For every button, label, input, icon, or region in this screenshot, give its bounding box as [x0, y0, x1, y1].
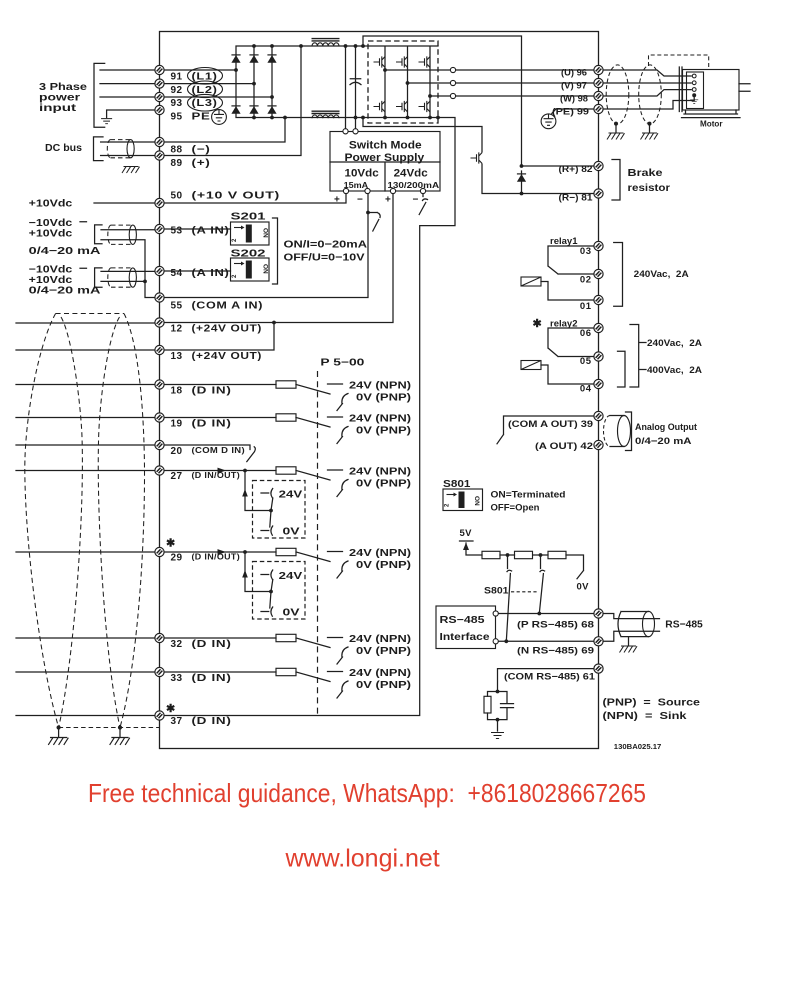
svg-text:DC bus: DC bus — [45, 143, 82, 154]
svg-text:S801: S801 — [484, 586, 509, 597]
svg-text:+10Vdc: +10Vdc — [29, 229, 73, 240]
svg-text:(P RS−485) 68: (P RS−485) 68 — [517, 620, 594, 631]
svg-text:(NPN) = Sink: (NPN) = Sink — [603, 711, 688, 722]
svg-text:(D IN): (D IN) — [192, 639, 232, 650]
svg-text:0V (PNP): 0V (PNP) — [356, 392, 411, 403]
svg-text:33: 33 — [171, 673, 183, 684]
svg-text:(D IN): (D IN) — [192, 386, 232, 397]
svg-text:resistor: resistor — [628, 183, 671, 194]
svg-text:240Vac, 2A: 240Vac, 2A — [634, 269, 689, 280]
svg-text:www.longi.net: www.longi.net — [285, 845, 440, 873]
svg-text:01: 01 — [580, 301, 592, 312]
svg-text:02: 02 — [580, 275, 592, 286]
svg-text:power: power — [39, 93, 80, 104]
svg-text:0V (PNP): 0V (PNP) — [356, 478, 411, 489]
svg-text:24Vdc: 24Vdc — [394, 168, 428, 180]
svg-text:24V (NPN): 24V (NPN) — [349, 634, 411, 645]
svg-text:P 5−00: P 5−00 — [320, 358, 365, 369]
svg-text:Interface: Interface — [440, 632, 491, 643]
svg-text:(A IN): (A IN) — [192, 226, 230, 237]
svg-text:(L2): (L2) — [192, 85, 218, 96]
svg-text:(D IN/OUT): (D IN/OUT) — [192, 553, 241, 562]
svg-text:(COM A IN): (COM A IN) — [192, 300, 264, 311]
svg-text:0V (PNP): 0V (PNP) — [356, 425, 411, 436]
svg-text:18: 18 — [171, 386, 183, 397]
svg-text:0V: 0V — [283, 607, 300, 619]
svg-text:−10Vdc: −10Vdc — [29, 264, 73, 275]
svg-text:ON/I=0−20mA: ON/I=0−20mA — [284, 239, 368, 251]
svg-text:OFF=Open: OFF=Open — [491, 503, 540, 514]
svg-text:S202: S202 — [231, 249, 267, 260]
svg-text:Free technical guidance, Whats: Free technical guidance, WhatsApp: +8618… — [88, 778, 646, 808]
svg-text:12: 12 — [171, 323, 183, 334]
svg-text:ON=Terminated: ON=Terminated — [491, 490, 566, 501]
svg-text:2: 2 — [232, 238, 238, 242]
svg-text:13: 13 — [171, 351, 183, 362]
svg-text:+10Vdc: +10Vdc — [29, 275, 73, 286]
svg-text:relay2: relay2 — [550, 319, 578, 330]
svg-text:91: 91 — [171, 71, 183, 82]
svg-text:S801: S801 — [443, 479, 471, 490]
svg-text:relay1: relay1 — [550, 236, 578, 247]
svg-text:53: 53 — [171, 226, 183, 237]
svg-text:(D IN): (D IN) — [192, 418, 232, 429]
svg-text:55: 55 — [171, 300, 183, 311]
svg-text:24V: 24V — [279, 489, 303, 501]
svg-text:✱: ✱ — [533, 318, 542, 330]
svg-text:(+10 V OUT): (+10 V OUT) — [192, 190, 281, 201]
svg-text:24V (NPN): 24V (NPN) — [349, 380, 411, 391]
svg-text:(D IN/OUT): (D IN/OUT) — [192, 471, 241, 480]
svg-text:✱: ✱ — [166, 703, 175, 715]
svg-text:input: input — [39, 103, 77, 114]
svg-text:24V (NPN): 24V (NPN) — [349, 466, 411, 477]
svg-text:(+24V OUT): (+24V OUT) — [192, 323, 263, 334]
svg-text:(D IN): (D IN) — [192, 673, 232, 684]
svg-text:240Vac, 2A: 240Vac, 2A — [647, 338, 702, 349]
svg-text:−10Vdc: −10Vdc — [29, 218, 73, 229]
svg-text:RS−485: RS−485 — [440, 615, 486, 626]
svg-text:0V: 0V — [577, 582, 590, 593]
svg-text:OFF/U=0−10V: OFF/U=0−10V — [284, 252, 365, 264]
svg-text:PE: PE — [192, 111, 211, 122]
svg-text:(+): (+) — [192, 158, 211, 169]
svg-text:+: + — [385, 195, 391, 206]
svg-text:0/4−20 mA: 0/4−20 mA — [29, 286, 101, 297]
svg-text:(N RS−485) 69: (N RS−485) 69 — [517, 646, 594, 657]
svg-text:24V (NPN): 24V (NPN) — [349, 668, 411, 679]
svg-text:32: 32 — [171, 639, 183, 650]
svg-text:RS−485: RS−485 — [665, 619, 703, 631]
svg-text:0/4−20 mA: 0/4−20 mA — [29, 246, 101, 257]
svg-text:0V (PNP): 0V (PNP) — [356, 680, 411, 691]
svg-text:+: + — [334, 195, 340, 206]
svg-text:(D IN): (D IN) — [192, 716, 232, 727]
svg-text:95: 95 — [171, 111, 183, 122]
svg-text:20: 20 — [171, 446, 183, 457]
svg-text:(PNP) = Source: (PNP) = Source — [603, 698, 701, 709]
svg-text:(COM RS−485) 61: (COM RS−485) 61 — [504, 672, 596, 683]
svg-text:(U) 96: (U) 96 — [561, 68, 587, 78]
svg-text:04: 04 — [580, 384, 592, 395]
svg-text:06: 06 — [580, 328, 592, 339]
svg-text:Motor: Motor — [700, 119, 723, 129]
svg-text:400Vac, 2A: 400Vac, 2A — [647, 365, 702, 376]
svg-text:ON: ON — [262, 264, 269, 274]
svg-text:29: 29 — [171, 553, 183, 564]
svg-text:(R+) 82: (R+) 82 — [559, 164, 593, 175]
svg-text:+10Vdc: +10Vdc — [29, 199, 73, 210]
svg-text:(COM A OUT) 39: (COM A OUT) 39 — [508, 419, 593, 430]
svg-text:(PE) 99: (PE) 99 — [552, 107, 589, 117]
svg-text:88: 88 — [171, 144, 183, 155]
svg-text:3 Phase: 3 Phase — [39, 82, 88, 93]
svg-text:130/200mA: 130/200mA — [387, 181, 439, 190]
svg-text:(R−) 81: (R−) 81 — [559, 193, 594, 204]
svg-text:Analog Output: Analog Output — [635, 422, 698, 433]
svg-text:0/4−20 mA: 0/4−20 mA — [635, 436, 692, 447]
svg-text:0V (PNP): 0V (PNP) — [356, 560, 411, 571]
svg-text:−: − — [357, 195, 363, 206]
svg-text:Brake: Brake — [628, 168, 664, 179]
svg-text:93: 93 — [171, 98, 183, 109]
svg-text:0V: 0V — [283, 526, 300, 538]
svg-text:5V: 5V — [460, 528, 473, 539]
svg-text:19: 19 — [171, 418, 183, 429]
svg-text:92: 92 — [171, 85, 183, 96]
svg-text:24V (NPN): 24V (NPN) — [349, 413, 411, 424]
svg-text:10Vdc: 10Vdc — [345, 168, 379, 180]
svg-text:(COM D IN): (COM D IN) — [192, 446, 246, 455]
svg-text:(L1): (L1) — [192, 71, 218, 82]
svg-text:Switch Mode: Switch Mode — [349, 140, 422, 152]
svg-text:(A IN): (A IN) — [192, 268, 230, 279]
svg-text:(−): (−) — [192, 144, 211, 155]
svg-text:−: − — [413, 195, 419, 206]
svg-text:(A OUT) 42: (A OUT) 42 — [535, 441, 593, 452]
svg-text:54: 54 — [171, 268, 183, 279]
svg-text:(V) 97: (V) 97 — [561, 81, 587, 91]
svg-text:15mA: 15mA — [344, 181, 369, 190]
svg-text:ON: ON — [473, 496, 480, 506]
svg-text:2: 2 — [232, 274, 238, 278]
svg-text:ON: ON — [262, 228, 269, 238]
svg-text:24V (NPN): 24V (NPN) — [349, 548, 411, 559]
svg-text:2: 2 — [445, 503, 451, 507]
svg-text:50: 50 — [171, 190, 183, 201]
svg-text:130BA025.17: 130BA025.17 — [614, 744, 662, 751]
svg-text:(+24V OUT): (+24V OUT) — [192, 351, 263, 362]
svg-text:0V (PNP): 0V (PNP) — [356, 646, 411, 657]
svg-text:(W) 98: (W) 98 — [560, 94, 588, 104]
svg-text:Power Supply: Power Supply — [345, 152, 426, 164]
svg-text:05: 05 — [580, 356, 592, 367]
svg-text:(L3): (L3) — [192, 98, 218, 109]
svg-text:89: 89 — [171, 158, 183, 169]
svg-text:27: 27 — [171, 471, 183, 482]
svg-text:S201: S201 — [231, 212, 267, 223]
svg-text:✱: ✱ — [166, 538, 175, 550]
svg-text:03: 03 — [580, 246, 592, 257]
svg-text:37: 37 — [171, 716, 183, 727]
svg-text:24V: 24V — [279, 570, 303, 582]
